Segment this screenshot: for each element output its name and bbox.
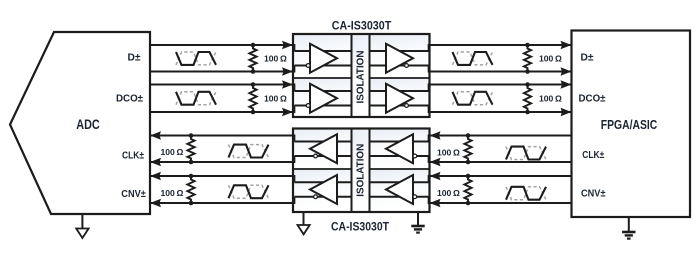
wire D- ADC to isolator	[150, 70, 293, 72]
resistor R8 100 Ohm termination CNV at isolator	[464, 176, 471, 203]
svg-text:ISOLATION: ISOLATION	[356, 144, 367, 197]
isolator U1 channel D internal routing	[294, 50, 351, 52]
arrowhead CNV+ into isolator	[430, 172, 441, 180]
differential waveform CLK (FPGA side)	[506, 147, 546, 160]
svg-text:100 Ω: 100 Ω	[539, 94, 562, 104]
junction dots R8 100 Ohm termination CNV at isolator	[466, 174, 471, 179]
svg-text:100 Ω: 100 Ω	[264, 53, 287, 63]
wire CLK- isolator to ADC	[150, 161, 293, 163]
svg-text:CNV±: CNV±	[121, 188, 146, 200]
svg-text:100 Ω: 100 Ω	[161, 147, 184, 157]
arrowhead DCO+ into FPGA	[561, 80, 572, 88]
differential waveform DCO (FPGA side)	[453, 92, 493, 105]
arrowhead DCO- into isolator	[282, 108, 293, 116]
arrowhead CNV+ into ADC	[150, 172, 161, 180]
wire CLK- FPGA to isolator	[430, 161, 572, 163]
svg-text:100 Ω: 100 Ω	[264, 94, 287, 104]
arrowhead D- into isolator	[282, 67, 293, 75]
svg-text:ADC: ADC	[76, 117, 100, 132]
resistor R6 100 Ohm termination CNV at ADC	[187, 176, 194, 203]
buffer U1 D input side (left)	[310, 44, 337, 73]
isolator U1 frame and isolation barrier	[293, 34, 430, 117]
svg-text:CNV±: CNV±	[581, 188, 606, 200]
inverting bubble U1 D right	[405, 64, 409, 68]
differential waveform DCO (ADC side)	[176, 92, 216, 105]
wire DCO+ ADC to isolator	[150, 83, 293, 85]
inverting bubble U2 CLK left	[314, 154, 318, 158]
resistor R2 100 Ohm termination DCO at isolator	[249, 85, 256, 113]
inverting bubble U2 CNV left	[314, 195, 318, 199]
wire DCO- isolator to FPGA	[430, 111, 572, 113]
differential waveform CLK (ADC side)	[229, 145, 269, 158]
buffer U2 CLK right (input side)	[386, 134, 413, 163]
wire D- isolator to FPGA	[430, 70, 572, 72]
buffer U1 DCO input side (left)	[310, 84, 337, 113]
isolator U1 CA-IS3030T (top) body fill	[293, 34, 352, 78]
ADC block	[10, 32, 150, 214]
svg-text:ISOLATION: ISOLATION	[356, 51, 367, 104]
arrowhead D+ into FPGA	[561, 41, 572, 49]
differential waveform D (FPGA side)	[453, 52, 493, 65]
wire CLK+ isolator to ADC	[150, 134, 293, 136]
inverting-input bubble U2 CNV right	[413, 195, 417, 199]
junction dots R4 100 Ohm termination DCO at FPGA	[525, 82, 530, 87]
resistor R5 100 Ohm termination CLK at ADC	[187, 136, 194, 163]
svg-text:D±: D±	[581, 52, 594, 64]
svg-text:CLK±: CLK±	[582, 149, 604, 161]
junction dots R2 100 Ohm termination DCO at isolator	[251, 82, 256, 87]
FPGA/ASIC block	[572, 31, 691, 218]
svg-text:DCO±: DCO±	[116, 93, 143, 105]
wire D+ ADC to isolator	[150, 44, 293, 46]
svg-text:100 Ω: 100 Ω	[539, 53, 562, 63]
svg-text:100 Ω: 100 Ω	[161, 188, 184, 198]
differential waveform CNV (ADC side)	[229, 185, 269, 198]
inverting-input bubble U1 DCO left	[306, 104, 310, 108]
buffer U1 DCO output side (right)	[386, 84, 413, 113]
isolator U2 CA-IS3030T (bottom) body fill	[293, 129, 352, 170]
wire DCO+ isolator to FPGA	[430, 83, 572, 85]
wire CNV- isolator to ADC	[150, 202, 293, 204]
svg-text:DCO±: DCO±	[579, 93, 606, 105]
arrowhead CLK+ into isolator	[430, 131, 441, 139]
ground isolator U2 right side (earth bars)	[417, 212, 419, 226]
svg-text:100 Ω: 100 Ω	[437, 148, 460, 158]
junction dots R5 100 Ohm termination CLK at ADC	[189, 133, 194, 138]
buffer U1 D output side (right)	[386, 44, 413, 73]
buffer U2 CNV right (input side)	[386, 175, 413, 204]
resistor R1 100 Ohm termination D at isolator	[249, 45, 256, 72]
isolator U2 frame and isolation barrier	[293, 129, 430, 213]
junction dots R1 100 Ohm termination D at isolator	[251, 43, 256, 48]
wire DCO- ADC to isolator	[150, 111, 293, 113]
isolator U2 channel CLK internal routing	[294, 141, 351, 143]
inverting-input bubble U2 CLK right	[413, 154, 417, 158]
arrowhead CNV- into ADC	[150, 199, 161, 207]
buffer U2 CNV left (output side)	[310, 175, 337, 204]
svg-text:D±: D±	[128, 51, 141, 63]
svg-text:FPGA/ASIC: FPGA/ASIC	[601, 117, 658, 132]
junction dots R7 100 Ohm termination CLK at isolator	[466, 133, 471, 138]
isolator U1 channel DCO internal routing	[294, 90, 351, 92]
junction dots R3 100 Ohm termination D at FPGA	[525, 43, 530, 48]
buffer U2 CLK left (output side)	[310, 134, 337, 163]
ground isolator U2 left side (signal ground)	[303, 212, 305, 225]
arrowhead CLK+ into ADC	[150, 131, 161, 139]
junction dots R6 100 Ohm termination CNV at ADC	[189, 174, 194, 179]
resistor R3 100 Ohm termination D at FPGA	[524, 45, 531, 72]
arrowhead CLK- into ADC	[150, 158, 161, 166]
wire CNV+ FPGA to isolator	[430, 175, 572, 177]
wire CLK+ FPGA to isolator	[430, 134, 572, 136]
resistor R4 100 Ohm termination DCO at FPGA	[524, 85, 531, 113]
arrowhead DCO- into FPGA	[561, 108, 572, 116]
arrowhead DCO+ into isolator	[282, 80, 293, 88]
svg-text:100 Ω: 100 Ω	[437, 188, 460, 198]
arrowhead D- into FPGA	[561, 67, 572, 75]
isolator U2 channel CNV internal routing	[294, 181, 351, 183]
ground ADC (signal ground)	[81, 214, 83, 229]
arrowhead CNV- into isolator	[430, 199, 441, 207]
differential waveform D (ADC side)	[176, 52, 216, 65]
inverting-input bubble U1 D left	[306, 64, 310, 68]
arrowhead D+ into isolator	[282, 41, 293, 49]
svg-text:CA-IS3030T: CA-IS3030T	[331, 219, 390, 233]
wire CNV+ isolator to ADC	[150, 175, 293, 177]
wire D+ isolator to FPGA	[430, 44, 572, 46]
ground FPGA (earth bars)	[628, 217, 630, 232]
wire CNV- FPGA to isolator	[430, 202, 572, 204]
inverting bubble U1 DCO right	[405, 104, 409, 108]
svg-text:CA-IS3030T: CA-IS3030T	[332, 18, 392, 32]
svg-text:CLK±: CLK±	[122, 149, 144, 161]
resistor R7 100 Ohm termination CLK at isolator	[464, 136, 471, 163]
differential waveform CNV (FPGA side)	[506, 187, 546, 200]
arrowhead CLK- into isolator	[430, 158, 441, 166]
